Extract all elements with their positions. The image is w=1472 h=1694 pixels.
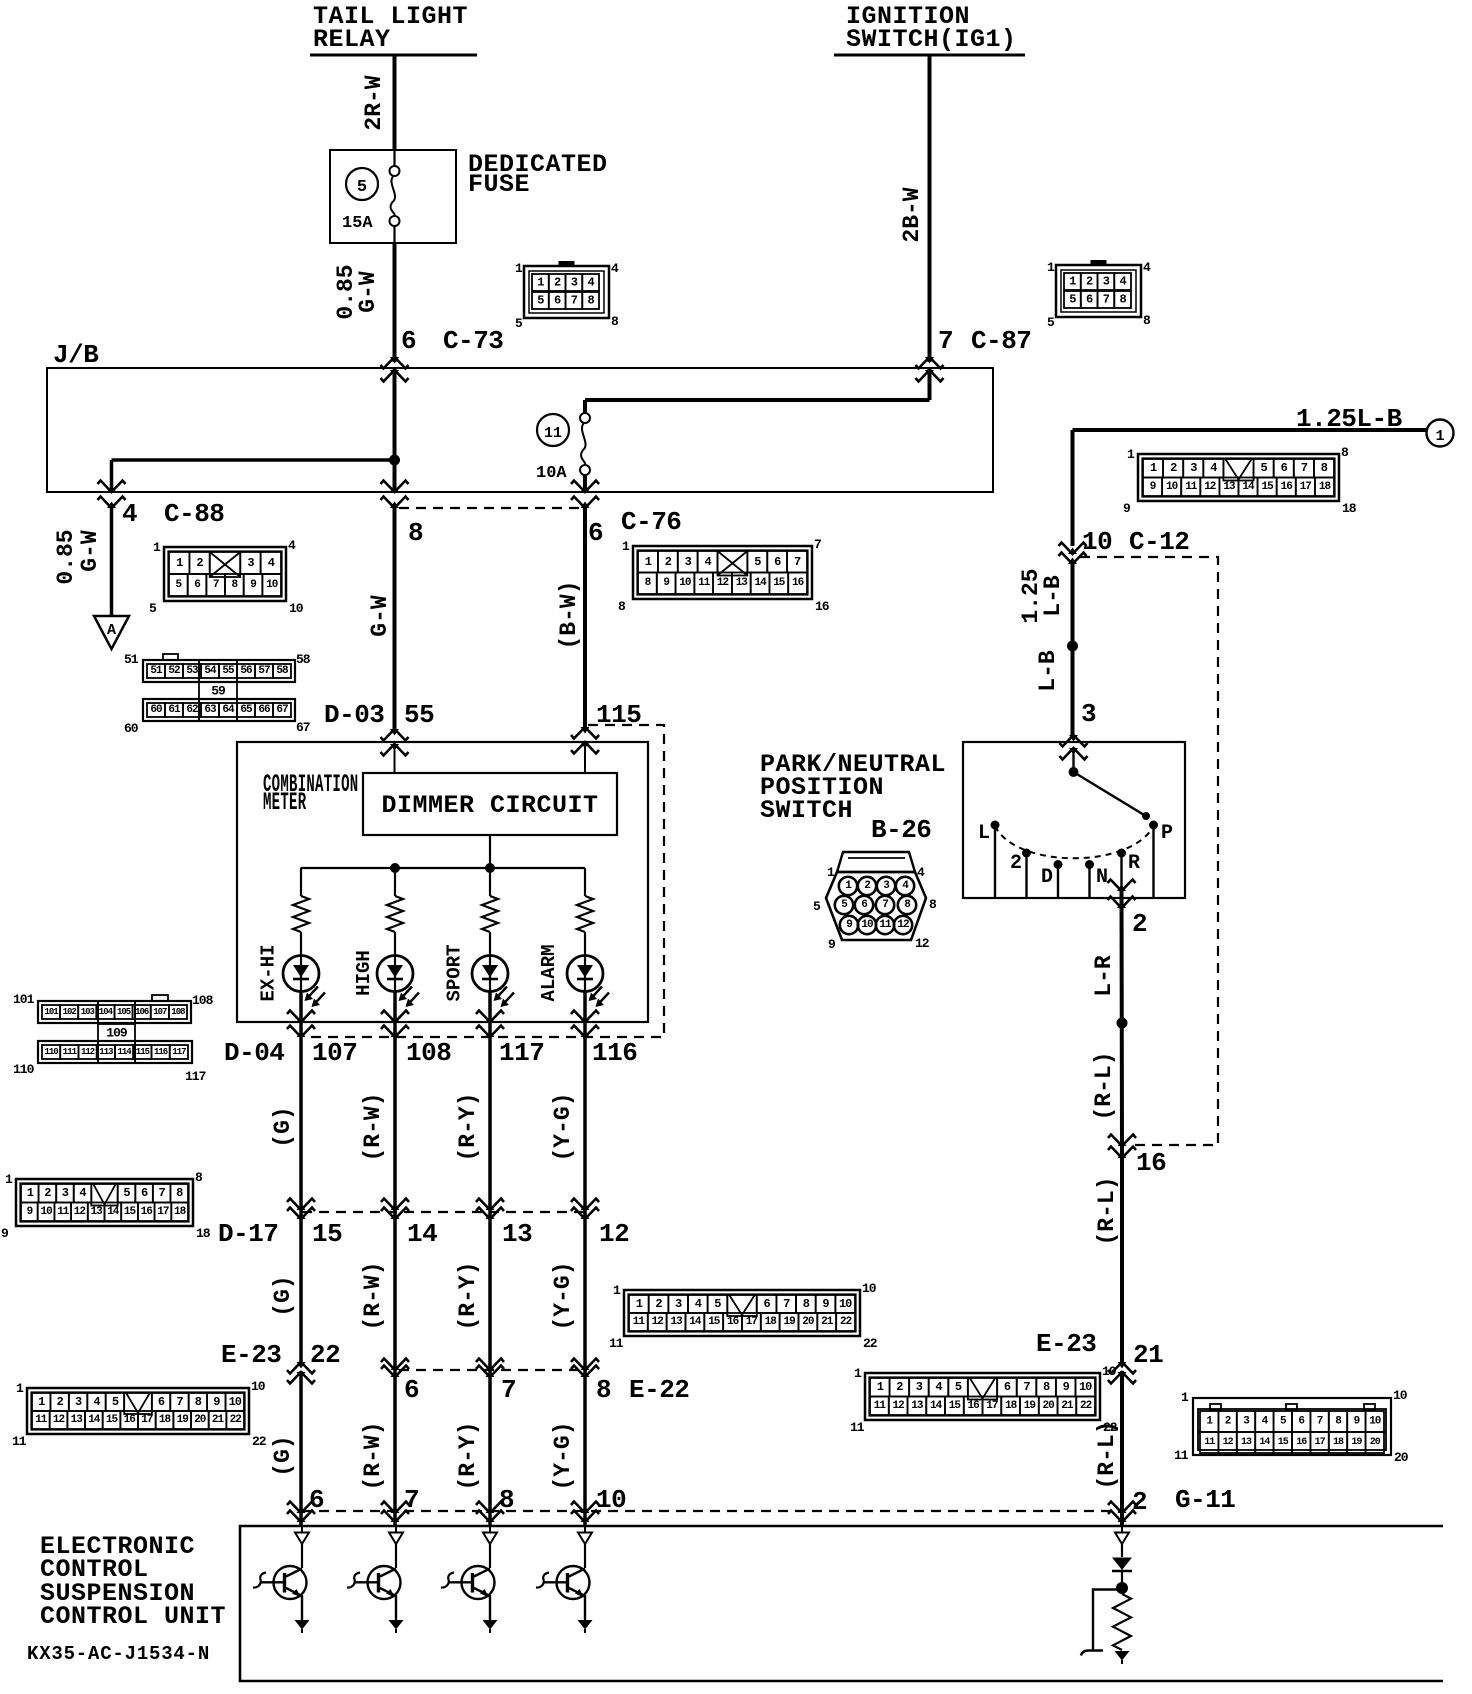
connector chevrons exit 4 C-88 — [98, 481, 126, 509]
svg-text:5: 5 — [357, 178, 367, 197]
wire (R-L) to G-11 — [1094, 1371, 1122, 1527]
svg-text:2: 2 — [554, 276, 561, 290]
svg-text:22: 22 — [252, 1434, 267, 1449]
input triangle G-11 column — [1115, 1527, 1129, 1544]
pin label D-17 15 — [218, 1219, 342, 1249]
svg-text:10: 10 — [289, 601, 304, 616]
svg-text:METER: METER — [263, 789, 307, 817]
svg-text:19: 19 — [1351, 1437, 1362, 1448]
ground branch with hook — [1081, 1590, 1117, 1656]
svg-text:15: 15 — [708, 1316, 721, 1328]
svg-text:SWITCH: SWITCH — [760, 796, 853, 825]
connector B-26 icon — [813, 852, 937, 952]
dashed connector line into ECU — [302, 1510, 1122, 1512]
svg-text:10: 10 — [40, 1206, 52, 1218]
connector D-03 icon (51-67) — [124, 652, 311, 736]
svg-text:18: 18 — [1005, 1400, 1018, 1412]
resistor for EX-HI lamp — [293, 868, 309, 956]
connector C-87 icon — [1047, 260, 1151, 330]
svg-text:2: 2 — [1010, 852, 1022, 875]
svg-text:17: 17 — [1315, 1437, 1326, 1448]
svg-text:60: 60 — [124, 721, 139, 736]
svg-text:1: 1 — [5, 1172, 13, 1187]
svg-text:9: 9 — [663, 577, 669, 589]
connector chevrons E-22 7 — [476, 1359, 504, 1378]
svg-text:1: 1 — [1181, 1390, 1189, 1405]
pin label D-04 — [224, 1038, 284, 1068]
dashed contact arc — [995, 826, 1154, 858]
svg-text:22: 22 — [230, 1414, 242, 1426]
svg-text:19: 19 — [1024, 1400, 1036, 1412]
pin label 8 — [408, 518, 423, 548]
wire (G) to suspension ECU — [270, 1371, 301, 1527]
contact D of PNP switch — [1054, 860, 1063, 898]
svg-text:(R-L): (R-L) — [1094, 1176, 1120, 1245]
connector chevrons E-23 21 — [1108, 1362, 1136, 1384]
wire (Y-G) D-04 to D-17 — [550, 1023, 585, 1213]
wire label 1.25L-B — [1296, 404, 1403, 434]
svg-text:18: 18 — [765, 1316, 778, 1328]
connector chevrons C-87 into J/B — [916, 357, 944, 382]
svg-text:67: 67 — [296, 720, 310, 735]
connector chevrons exit 6 C-76 — [571, 481, 599, 509]
svg-text:115: 115 — [136, 1047, 150, 1057]
pin label 6 C-76 — [588, 507, 681, 548]
svg-text:5: 5 — [714, 1297, 721, 1311]
device label TAIL LIGHT RELAY — [310, 2, 477, 55]
junction node rail 2 — [485, 863, 495, 873]
svg-text:51: 51 — [124, 652, 139, 667]
svg-text:6: 6 — [194, 579, 200, 591]
contact label D — [1041, 866, 1053, 889]
svg-text:5: 5 — [955, 1380, 962, 1394]
svg-text:4: 4 — [917, 865, 925, 880]
svg-text:ALARM: ALARM — [538, 944, 560, 1001]
svg-text:9: 9 — [1, 1226, 9, 1241]
svg-text:4: 4 — [704, 555, 711, 569]
svg-text:1: 1 — [1435, 428, 1444, 445]
junction node on R-L wire — [1117, 1018, 1128, 1029]
svg-text:16: 16 — [815, 599, 830, 614]
connector chevrons D-03 55 — [381, 729, 409, 756]
connector chevrons D-04 SPORT — [476, 1011, 504, 1038]
svg-text:13: 13 — [1223, 481, 1236, 493]
svg-text:D-17: D-17 — [218, 1219, 278, 1249]
svg-text:G-11: G-11 — [1175, 1485, 1235, 1515]
svg-text:8: 8 — [176, 1186, 183, 1200]
svg-text:6: 6 — [1004, 1380, 1011, 1394]
wire B-W inside J/B — [585, 368, 930, 492]
device label COMBINATION METER — [263, 771, 358, 817]
pin label 4 C-88 — [122, 499, 224, 529]
pin label 6 — [404, 1375, 419, 1405]
svg-text:5: 5 — [1069, 293, 1076, 307]
svg-text:5: 5 — [754, 555, 761, 569]
wire (R-W) D-17 to E row — [360, 1213, 395, 1371]
wire 115 feed into dimmer — [584, 742, 586, 773]
pin label 115 — [596, 700, 641, 730]
connector chevrons D-17 (G) — [287, 1199, 315, 1220]
svg-text:D-04: D-04 — [224, 1038, 284, 1068]
svg-text:0.85: 0.85 — [53, 529, 79, 584]
connector D-04 icon (101-117) — [13, 992, 214, 1084]
svg-text:58: 58 — [296, 652, 311, 667]
svg-text:3: 3 — [1081, 699, 1096, 729]
svg-text:D: D — [1041, 866, 1053, 889]
svg-text:11: 11 — [850, 1420, 865, 1435]
switch arm to P — [1074, 772, 1151, 820]
svg-text:15: 15 — [1261, 481, 1274, 493]
wire HIGH to D-04 — [393, 992, 397, 1024]
svg-text:L-B: L-B — [1040, 575, 1066, 617]
wire (G) D-17 to E row — [270, 1213, 301, 1363]
svg-text:14: 14 — [689, 1316, 702, 1328]
svg-text:20: 20 — [802, 1316, 814, 1328]
connector chevrons ECU (Y-G) — [571, 1502, 599, 1523]
svg-text:4: 4 — [1210, 461, 1217, 475]
svg-text:6: 6 — [1281, 461, 1288, 475]
pin label 14 — [407, 1219, 437, 1249]
connector chevrons C-73 into J/B — [381, 357, 409, 382]
svg-text:59: 59 — [211, 684, 226, 699]
svg-text:116: 116 — [154, 1047, 168, 1057]
svg-text:E-22: E-22 — [629, 1375, 689, 1405]
svg-text:2: 2 — [44, 1186, 51, 1200]
svg-text:116: 116 — [592, 1038, 637, 1068]
svg-text:10: 10 — [1082, 527, 1112, 557]
svg-text:11: 11 — [874, 1400, 887, 1412]
svg-text:5: 5 — [149, 601, 157, 616]
svg-text:6: 6 — [554, 294, 561, 308]
svg-text:8: 8 — [1043, 1380, 1050, 1394]
svg-text:10: 10 — [1102, 1364, 1117, 1379]
svg-text:8: 8 — [803, 1297, 810, 1311]
svg-text:11: 11 — [35, 1414, 48, 1426]
wire 1.25L-B horizontal — [1073, 430, 1427, 546]
svg-text:8: 8 — [587, 294, 594, 308]
device label ELECTRONIC CONTROL SUSPENSION CONTROL UNIT — [40, 1532, 226, 1631]
svg-text:11: 11 — [698, 577, 711, 589]
dashed connector link 8 to 6 — [399, 507, 580, 509]
svg-text:7: 7 — [213, 579, 219, 591]
svg-text:9: 9 — [846, 919, 852, 931]
wire dimmer output — [489, 835, 491, 868]
resistor for ALARM lamp — [577, 868, 593, 956]
svg-text:56: 56 — [240, 665, 252, 677]
svg-text:55: 55 — [222, 665, 235, 677]
transistor Q1 in ECU — [253, 1526, 310, 1633]
resistor in ECU — [1113, 1594, 1131, 1650]
svg-text:52: 52 — [168, 665, 180, 677]
connector E-22 icon — [609, 1281, 878, 1351]
svg-text:19: 19 — [783, 1316, 795, 1328]
svg-text:51: 51 — [150, 665, 163, 677]
svg-text:115: 115 — [596, 700, 641, 730]
pin label 7 bottom — [404, 1485, 419, 1515]
svg-text:10: 10 — [862, 1281, 877, 1296]
junction block J/B box — [47, 340, 993, 492]
pin label 3 — [1081, 699, 1096, 729]
svg-text:3: 3 — [916, 1380, 923, 1394]
svg-text:C-76: C-76 — [621, 507, 681, 537]
svg-text:108: 108 — [171, 1007, 185, 1017]
svg-text:(Y-G): (Y-G) — [550, 1092, 576, 1161]
connector chevrons E-22 6 — [381, 1359, 409, 1378]
pin label 117 — [499, 1038, 544, 1068]
svg-text:10: 10 — [229, 1395, 242, 1409]
svg-text:4: 4 — [695, 1297, 702, 1311]
svg-text:8: 8 — [1321, 461, 1328, 475]
contact P of PNP switch — [1149, 821, 1158, 899]
LED indicator HIGH — [353, 950, 419, 1007]
svg-text:1: 1 — [1047, 260, 1055, 275]
svg-text:1: 1 — [636, 1297, 643, 1311]
svg-text:12: 12 — [53, 1414, 65, 1426]
contact label 2 — [1010, 852, 1022, 875]
svg-text:8: 8 — [408, 518, 423, 548]
svg-text:3: 3 — [571, 276, 578, 290]
svg-text:61: 61 — [168, 704, 181, 716]
svg-text:C-88: C-88 — [164, 499, 224, 529]
svg-text:104: 104 — [99, 1007, 114, 1017]
svg-text:7: 7 — [783, 1297, 790, 1311]
svg-text:10: 10 — [861, 919, 873, 931]
svg-text:SPORT: SPORT — [444, 944, 466, 1001]
svg-text:10: 10 — [679, 577, 691, 589]
svg-text:7: 7 — [938, 326, 953, 356]
svg-text:4: 4 — [268, 556, 275, 570]
svg-text:6: 6 — [158, 1395, 165, 1409]
pin label 108 — [406, 1038, 451, 1068]
connector chevrons D-03 115 — [571, 727, 599, 754]
svg-text:6: 6 — [1298, 1416, 1304, 1428]
svg-text:(B-W): (B-W) — [556, 580, 582, 649]
svg-text:1: 1 — [613, 1283, 621, 1298]
svg-text:8: 8 — [1119, 293, 1126, 307]
svg-text:EX-HI: EX-HI — [258, 944, 280, 1001]
svg-text:(R-Y): (R-Y) — [455, 1421, 481, 1490]
wire 1.25 L-B to PNP switch — [1018, 562, 1073, 735]
contact label L — [978, 822, 990, 845]
svg-text:108: 108 — [192, 993, 214, 1008]
svg-text:2: 2 — [1086, 275, 1093, 289]
svg-text:4: 4 — [79, 1186, 86, 1200]
svg-text:7: 7 — [1301, 461, 1308, 475]
svg-text:2: 2 — [1225, 1416, 1231, 1428]
svg-text:R: R — [1128, 852, 1140, 875]
svg-text:N: N — [1096, 866, 1108, 889]
svg-text:5: 5 — [1260, 461, 1267, 475]
wire (B-W) from J/B to combination meter — [556, 508, 585, 727]
transistor Q2 in ECU — [347, 1526, 404, 1633]
svg-text:64: 64 — [222, 704, 235, 716]
wire (R-Y) D-17 to E row — [455, 1213, 490, 1371]
svg-text:58: 58 — [276, 665, 289, 677]
svg-text:C-12: C-12 — [1129, 527, 1189, 557]
connector chevrons PNP exit 2 — [1108, 880, 1136, 909]
svg-text:7: 7 — [1317, 1416, 1323, 1428]
connector chevrons C-12 16 — [1108, 1135, 1136, 1159]
svg-text:16: 16 — [141, 1206, 153, 1218]
svg-text:10: 10 — [266, 579, 278, 591]
svg-text:6: 6 — [141, 1186, 148, 1200]
svg-text:C-87: C-87 — [971, 326, 1031, 356]
connector chevrons C-12 10 — [1059, 543, 1087, 565]
svg-text:10: 10 — [251, 1379, 266, 1394]
label B-26 — [871, 815, 931, 845]
svg-text:(G): (G) — [270, 1435, 296, 1476]
connector chevrons ECU (R-Y) — [476, 1502, 504, 1523]
device label IGNITION SWITCH(IG1) — [834, 2, 1025, 55]
svg-text:17: 17 — [746, 1316, 758, 1328]
svg-text:5: 5 — [112, 1395, 119, 1409]
svg-text:4: 4 — [935, 1380, 942, 1394]
pin label 12 — [599, 1219, 629, 1249]
svg-text:53: 53 — [186, 665, 199, 677]
svg-text:9: 9 — [250, 579, 256, 591]
svg-text:14: 14 — [407, 1219, 437, 1249]
svg-text:1: 1 — [877, 1380, 884, 1394]
svg-text:11: 11 — [1185, 481, 1198, 493]
svg-text:21: 21 — [212, 1414, 225, 1426]
svg-text:8: 8 — [611, 314, 619, 329]
svg-text:10: 10 — [1393, 1388, 1408, 1403]
svg-text:60: 60 — [150, 704, 162, 716]
svg-text:E-23: E-23 — [1036, 1329, 1096, 1359]
svg-text:4: 4 — [587, 276, 594, 290]
svg-text:1: 1 — [1127, 447, 1135, 462]
svg-text:15A: 15A — [342, 214, 373, 233]
pin label 7 C-87 — [938, 326, 1031, 356]
svg-text:7: 7 — [176, 1395, 183, 1409]
connector C-76 icon — [618, 537, 830, 614]
svg-text:17: 17 — [986, 1400, 998, 1412]
wire 2B-W from ignition switch — [899, 55, 930, 362]
svg-text:DIMMER CIRCUIT: DIMMER CIRCUIT — [381, 791, 598, 820]
svg-text:16: 16 — [967, 1400, 979, 1412]
svg-text:3: 3 — [685, 555, 692, 569]
wire G-W inside J/B — [393, 368, 397, 492]
svg-text:15: 15 — [1278, 1437, 1289, 1448]
fuse box DEDICATED FUSE (fuse 5 15A) — [330, 150, 608, 243]
svg-text:11: 11 — [1174, 1448, 1189, 1463]
svg-text:112: 112 — [81, 1047, 95, 1057]
svg-text:L-R: L-R — [1091, 955, 1117, 997]
junction node on L-B wire — [1067, 641, 1078, 652]
svg-text:C-73: C-73 — [443, 326, 503, 356]
svg-text:1: 1 — [1150, 461, 1157, 475]
svg-text:1: 1 — [153, 540, 161, 555]
svg-text:17: 17 — [157, 1206, 169, 1218]
pin label 8 — [596, 1375, 611, 1405]
diagram code KX35-AC-J1534-N — [27, 1643, 210, 1665]
wire (R-Y) to suspension ECU — [455, 1371, 490, 1527]
svg-text:17: 17 — [141, 1414, 153, 1426]
svg-text:1: 1 — [537, 276, 544, 290]
pin label 8 bottom — [499, 1485, 514, 1515]
svg-text:8: 8 — [618, 599, 626, 614]
svg-text:5: 5 — [537, 294, 544, 308]
connector D-17 icon — [1, 1170, 211, 1241]
svg-text:108: 108 — [406, 1038, 451, 1068]
svg-text:8: 8 — [195, 1395, 202, 1409]
dimmer circuit box — [363, 773, 617, 835]
svg-text:63: 63 — [204, 704, 217, 716]
contact 2 of PNP switch — [1022, 849, 1031, 899]
svg-text:117: 117 — [499, 1038, 544, 1068]
svg-text:18: 18 — [174, 1206, 187, 1218]
off-page connector A triangle — [94, 616, 129, 649]
wire 0.85 G-W to off-page A — [53, 508, 112, 616]
svg-text:6: 6 — [404, 1375, 419, 1405]
svg-text:7: 7 — [571, 294, 578, 308]
svg-text:1: 1 — [854, 1366, 862, 1381]
park/neutral position switch box — [963, 742, 1185, 898]
svg-text:18: 18 — [1333, 1437, 1344, 1448]
svg-text:5: 5 — [515, 316, 523, 331]
svg-text:L: L — [978, 822, 990, 845]
svg-text:(G): (G) — [270, 1106, 296, 1147]
svg-text:4: 4 — [1119, 275, 1126, 289]
svg-text:5: 5 — [813, 899, 821, 914]
svg-text:15: 15 — [312, 1219, 342, 1249]
svg-text:4: 4 — [122, 499, 137, 529]
svg-text:9: 9 — [1063, 1380, 1070, 1394]
connector chevrons PNP 3 — [1060, 735, 1088, 760]
wire distribution rail — [301, 867, 586, 869]
svg-text:57: 57 — [258, 665, 270, 677]
svg-text:2B-W: 2B-W — [899, 187, 925, 242]
svg-text:11: 11 — [57, 1206, 70, 1218]
svg-text:103: 103 — [81, 1007, 95, 1017]
electronic control suspension control unit box — [240, 1526, 1443, 1681]
svg-text:(Y-G): (Y-G) — [550, 1421, 576, 1490]
svg-text:106: 106 — [135, 1007, 149, 1017]
svg-text:16: 16 — [1296, 1437, 1307, 1448]
svg-text:3: 3 — [62, 1186, 69, 1200]
connector chevrons D-17 (Y-G) — [571, 1199, 599, 1220]
svg-text:8: 8 — [195, 1170, 203, 1185]
svg-text:13: 13 — [90, 1206, 103, 1218]
wire 55 feed into dimmer — [394, 744, 396, 773]
svg-text:1.25L-B: 1.25L-B — [1296, 404, 1403, 434]
svg-text:11: 11 — [609, 1336, 624, 1351]
svg-text:20: 20 — [1370, 1437, 1381, 1448]
svg-text:15: 15 — [106, 1414, 119, 1426]
connector chevrons exit 8 — [381, 481, 409, 509]
pin label 6 bottom — [309, 1485, 324, 1515]
svg-text:13: 13 — [502, 1219, 532, 1249]
svg-text:6: 6 — [588, 518, 603, 548]
pin label D-03 55 — [324, 700, 434, 730]
LED indicator SPORT — [444, 944, 515, 1007]
junction node on G-W wire — [389, 455, 400, 466]
svg-text:22: 22 — [840, 1316, 852, 1328]
svg-text:14: 14 — [1242, 481, 1255, 493]
svg-text:(R-W): (R-W) — [360, 1092, 386, 1161]
svg-text:3: 3 — [1190, 461, 1197, 475]
svg-text:2: 2 — [1132, 909, 1147, 939]
svg-text:107: 107 — [312, 1038, 357, 1068]
svg-text:CONTROL UNIT: CONTROL UNIT — [40, 1602, 226, 1631]
svg-text:12: 12 — [892, 1400, 904, 1412]
svg-text:L-B: L-B — [1035, 650, 1061, 692]
svg-text:21: 21 — [821, 1316, 834, 1328]
svg-text:4: 4 — [93, 1395, 100, 1409]
svg-text:10A: 10A — [536, 464, 567, 483]
svg-text:12: 12 — [897, 919, 909, 931]
connector G-11 icon — [1174, 1388, 1409, 1465]
